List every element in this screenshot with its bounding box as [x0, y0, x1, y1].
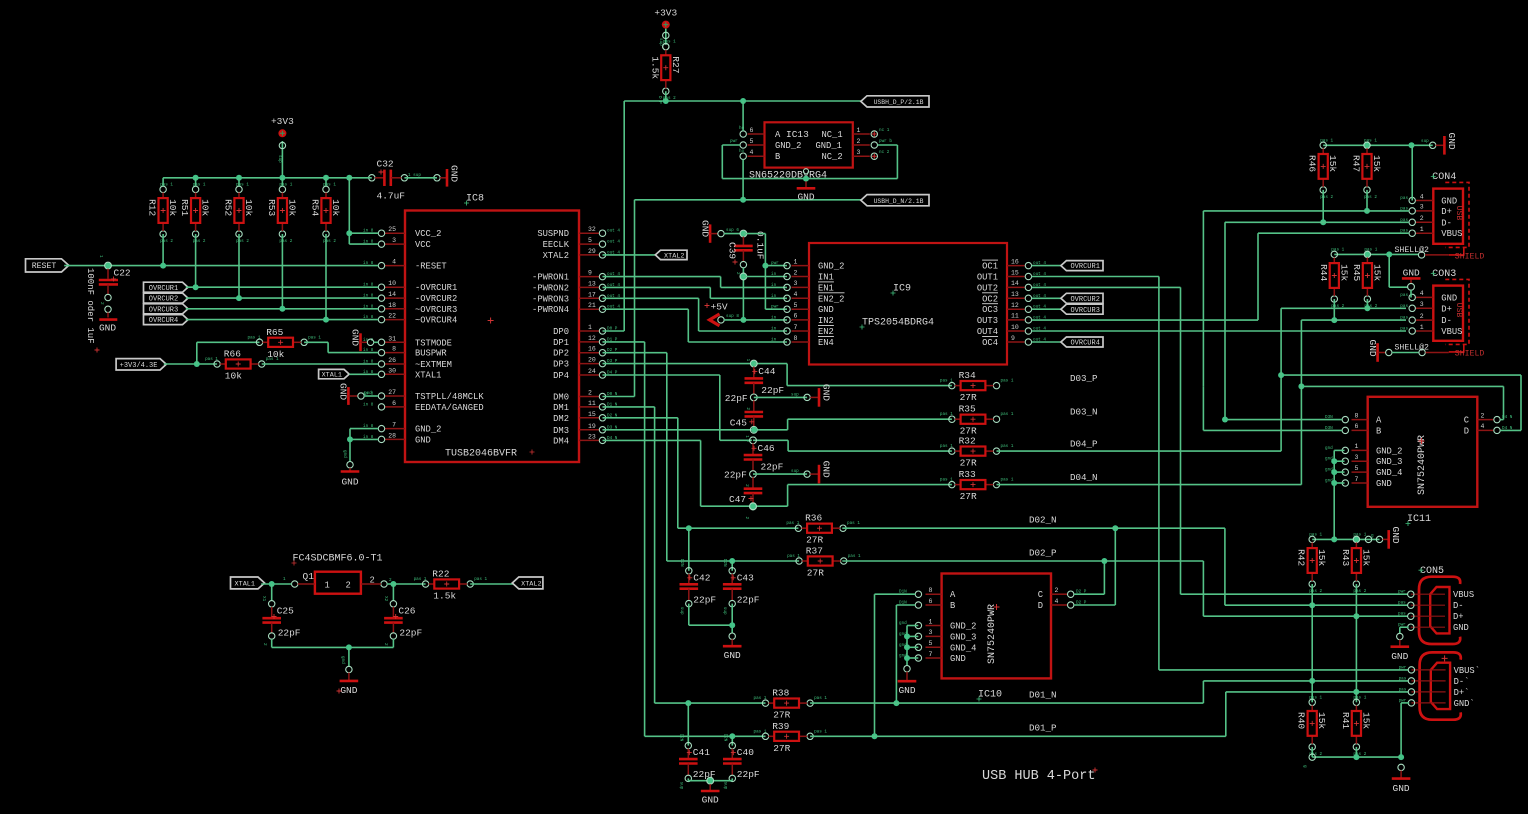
svg-text:8: 8 — [392, 346, 396, 353]
svg-text:pwr: pwr — [1399, 665, 1407, 670]
svg-text:pas 2: pas 2 — [1353, 589, 1366, 594]
svg-text:1: 1 — [745, 359, 750, 362]
wire — [896, 604, 915, 606]
svg-text:GND_2: GND_2 — [818, 262, 844, 272]
wire — [720, 439, 752, 441]
svg-text:R36: R36 — [805, 513, 822, 524]
junction — [663, 98, 669, 104]
resistor R44 — [1318, 247, 1350, 309]
wire — [788, 418, 952, 420]
svg-text:C43: C43 — [737, 572, 754, 583]
svg-text:R51: R51 — [179, 199, 190, 216]
svg-text:D-`: D-` — [1454, 677, 1470, 687]
svg-text:GND_2: GND_2 — [415, 425, 441, 435]
wire — [687, 778, 689, 780]
svg-text:1: 1 — [98, 255, 103, 258]
wire — [1312, 538, 1379, 540]
resistor R47 — [1351, 138, 1383, 200]
wire — [787, 385, 952, 387]
capacitor C26 — [383, 584, 423, 646]
ground — [791, 384, 832, 407]
svg-text:C39: C39 — [727, 242, 738, 259]
resistor R35 — [940, 404, 1014, 437]
svg-text:pas 1: pas 1 — [1320, 138, 1333, 143]
svg-text:pas 2: pas 2 — [323, 239, 336, 244]
junction — [1309, 602, 1315, 608]
svg-text:25: 25 — [388, 226, 396, 233]
svg-text:DM1: DM1 — [553, 403, 569, 413]
svg-text:D P: D P — [657, 96, 662, 104]
ground — [701, 784, 720, 805]
wire — [1334, 449, 1344, 451]
svg-text:14: 14 — [1011, 280, 1019, 287]
svg-text:7: 7 — [929, 651, 933, 658]
svg-text:GND: GND — [415, 435, 431, 445]
resistor R22 — [414, 569, 488, 602]
svg-text:pas 1: pas 1 — [1001, 379, 1014, 384]
capacitor C47 — [724, 470, 762, 520]
wire — [743, 319, 787, 321]
wire — [1300, 320, 1302, 485]
wire — [742, 159, 744, 199]
svg-text:pas 1: pas 1 — [266, 357, 279, 362]
capacitor C43 — [722, 559, 760, 615]
crystal Q1 FC4SDCBMF6.0-T1 — [283, 554, 392, 594]
capacitor C39 — [727, 231, 766, 275]
svg-text:12: 12 — [588, 335, 596, 342]
wire — [1333, 450, 1335, 483]
wire — [271, 584, 273, 601]
wire — [842, 527, 1225, 529]
ground — [1402, 267, 1421, 290]
svg-text:pas 1: pas 1 — [663, 40, 676, 45]
svg-text:USB HUB 4-Port: USB HUB 4-Port — [982, 769, 1095, 784]
svg-text:CON5: CON5 — [1420, 566, 1444, 577]
wire — [1032, 341, 1061, 343]
svg-text:pas 2: pas 2 — [193, 239, 206, 244]
IC U11 SN75240PWR — [1325, 397, 1513, 526]
svg-text:NC_1: NC_1 — [822, 130, 843, 140]
wire — [1074, 593, 1104, 595]
wire — [743, 276, 787, 278]
svg-text:-PWRON3: -PWRON3 — [532, 294, 569, 304]
svg-text:6: 6 — [794, 313, 798, 320]
svg-text:1: 1 — [1355, 443, 1359, 450]
capacitor C45 — [725, 393, 763, 443]
svg-text:OVRCUR1: OVRCUR1 — [149, 285, 178, 293]
svg-text:2: 2 — [1420, 215, 1424, 222]
wire — [1203, 429, 1342, 431]
svg-text:sup: sup — [678, 782, 683, 790]
svg-text:15k: 15k — [1371, 155, 1382, 172]
svg-text:pas 2: pas 2 — [1320, 195, 1333, 200]
svg-text:22pF: 22pF — [761, 462, 784, 473]
wire — [698, 298, 700, 331]
wire — [699, 330, 787, 332]
svg-text:24: 24 — [588, 368, 596, 375]
ground — [1367, 340, 1392, 362]
svg-text:22pF: 22pF — [761, 385, 784, 396]
net label XTAL1 — [319, 369, 350, 379]
svg-text:1: 1 — [1420, 226, 1424, 233]
wire — [896, 145, 898, 179]
svg-text:C42: C42 — [693, 572, 710, 583]
wire — [1355, 747, 1357, 757]
svg-text:D2N: D2N — [722, 559, 727, 567]
capacitor C25 — [261, 584, 301, 646]
wire — [164, 363, 217, 365]
wire — [392, 584, 394, 601]
svg-text:3: 3 — [857, 149, 861, 156]
wire — [1158, 277, 1160, 670]
wire — [1392, 352, 1418, 354]
junction — [686, 525, 692, 531]
svg-text:18: 18 — [388, 302, 396, 309]
wire — [195, 178, 197, 186]
svg-text:OUT2: OUT2 — [977, 283, 998, 293]
junction — [346, 175, 352, 181]
svg-text:6: 6 — [1355, 423, 1359, 430]
wire — [700, 440, 702, 506]
wire — [1032, 286, 1181, 288]
svg-text:IC13: IC13 — [786, 129, 809, 140]
svg-text:SHIELD: SHIELD — [1455, 349, 1485, 358]
svg-text:4: 4 — [750, 149, 754, 156]
wire — [1226, 691, 1409, 693]
wire — [1334, 460, 1344, 462]
svg-text:13: 13 — [588, 280, 596, 287]
wire — [196, 342, 198, 364]
wire — [603, 429, 755, 431]
svg-text:GND: GND — [1393, 783, 1410, 794]
wire — [349, 177, 372, 179]
svg-text:TPS2054BDRG4: TPS2054BDRG4 — [862, 318, 934, 329]
svg-text:C32: C32 — [377, 159, 394, 170]
ground — [95, 320, 118, 353]
wire — [1355, 584, 1357, 702]
capacitor C40 — [722, 734, 760, 790]
wire — [623, 101, 625, 331]
wire — [186, 297, 378, 299]
svg-text:pas 1: pas 1 — [814, 729, 827, 734]
svg-text:OUT4: OUT4 — [977, 327, 998, 337]
svg-text:sup: sup — [791, 469, 799, 474]
wire — [281, 141, 283, 178]
svg-text:3: 3 — [1420, 301, 1424, 308]
svg-text:IC10: IC10 — [978, 690, 1002, 701]
wire — [688, 528, 690, 571]
svg-text:D+`: D+` — [1454, 688, 1470, 698]
junction — [236, 295, 242, 301]
wire — [655, 702, 766, 704]
resistor R54 — [310, 182, 342, 244]
net label OVRCUR4 — [144, 315, 189, 326]
wire — [742, 101, 744, 131]
svg-text:17: 17 — [588, 291, 596, 298]
svg-text:-OVRCUR2: -OVRCUR2 — [415, 294, 457, 304]
svg-text:VCC: VCC — [415, 240, 431, 250]
junction — [1298, 383, 1304, 389]
resistor R52 — [223, 182, 255, 244]
wire — [603, 297, 699, 299]
wire — [667, 560, 799, 562]
wire — [1225, 221, 1409, 223]
capacitor C22 — [85, 255, 131, 344]
svg-text:pwr: pwr — [1398, 590, 1406, 595]
wire — [348, 647, 350, 666]
capacitor C46 — [744, 435, 784, 472]
wire — [997, 450, 1282, 452]
wire — [1225, 604, 1408, 606]
wire — [1032, 276, 1159, 278]
svg-text:GND_2: GND_2 — [775, 141, 801, 151]
svg-text:R37: R37 — [806, 546, 823, 557]
svg-text:+3V3: +3V3 — [654, 7, 677, 18]
svg-text:TSTMODE: TSTMODE — [415, 338, 452, 348]
wire — [764, 234, 766, 310]
svg-text:GND: GND — [99, 323, 116, 334]
wire — [603, 254, 656, 256]
junction — [346, 230, 352, 236]
junction — [323, 317, 329, 323]
svg-text:28: 28 — [388, 432, 396, 439]
wire — [754, 429, 787, 431]
wire — [722, 178, 897, 180]
resistor R46 — [1307, 138, 1339, 200]
svg-text:1.5k: 1.5k — [649, 56, 660, 79]
net label SHELL@2 — [1334, 245, 1449, 258]
resistor R45 — [1351, 247, 1383, 309]
svg-text:SHELL@2: SHELL@2 — [1395, 245, 1429, 255]
svg-text:C40: C40 — [737, 747, 754, 758]
svg-text:0.1uF: 0.1uF — [755, 231, 766, 260]
svg-text:22pF: 22pF — [399, 627, 422, 638]
wire — [304, 341, 328, 343]
svg-text:-PWRON2: -PWRON2 — [532, 283, 569, 293]
svg-text:15k: 15k — [1327, 155, 1338, 172]
svg-text:sup: sup — [277, 155, 282, 163]
resistor R34 — [940, 370, 1014, 403]
svg-text:VBUS`: VBUS` — [1454, 666, 1480, 676]
wire — [1500, 419, 1503, 421]
svg-text:30: 30 — [388, 367, 396, 374]
svg-text:31: 31 — [388, 335, 396, 342]
svg-text:GND: GND — [340, 685, 357, 696]
svg-text:in: in — [771, 327, 777, 332]
ground — [797, 181, 816, 202]
svg-text:10: 10 — [1011, 324, 1019, 331]
svg-text:15k: 15k — [1316, 549, 1327, 566]
junction — [750, 503, 756, 509]
net label OVRCUR1 — [1061, 261, 1103, 272]
wire — [688, 780, 732, 782]
wire — [350, 428, 378, 430]
wire — [195, 234, 197, 287]
resistor R33 — [940, 469, 1014, 502]
net label USBH_D_P/2.1B — [861, 96, 929, 107]
wire — [197, 341, 260, 343]
wire — [186, 308, 378, 310]
svg-text:pas 1: pas 1 — [814, 696, 827, 701]
wire — [1334, 253, 1418, 255]
svg-text:~EXTMEM: ~EXTMEM — [415, 360, 452, 370]
wire — [470, 583, 513, 585]
wire — [731, 561, 733, 571]
svg-text:pas: pas — [1399, 687, 1407, 692]
wire — [349, 232, 378, 234]
svg-text:IC9: IC9 — [893, 284, 911, 295]
wire — [1301, 385, 1503, 387]
junction — [194, 361, 200, 367]
svg-text:DM0: DM0 — [553, 393, 569, 403]
svg-text:15k: 15k — [1338, 264, 1349, 281]
svg-text:9: 9 — [588, 270, 592, 277]
svg-text:4: 4 — [1481, 423, 1485, 430]
svg-text:3: 3 — [1355, 454, 1359, 461]
svg-text:2: 2 — [744, 517, 749, 520]
svg-text:OUT3: OUT3 — [977, 316, 998, 326]
svg-text:3: 3 — [794, 280, 798, 287]
svg-text:GND: GND — [950, 654, 966, 664]
svg-text:g: g — [1302, 765, 1307, 768]
wire — [162, 234, 164, 266]
svg-text:15k: 15k — [1360, 712, 1371, 729]
svg-text:27R: 27R — [960, 491, 977, 502]
power +3V3 — [271, 116, 294, 137]
svg-text:27: 27 — [388, 389, 396, 396]
svg-text:R27: R27 — [670, 56, 681, 73]
svg-text:pas 2: pas 2 — [1309, 589, 1322, 594]
resistor R53 — [266, 182, 298, 244]
wire — [392, 639, 394, 647]
svg-text:pas 1: pas 1 — [160, 182, 173, 187]
wire — [907, 646, 918, 648]
svg-text:3: 3 — [392, 237, 396, 244]
wire — [787, 440, 789, 451]
svg-text:GND_4: GND_4 — [950, 643, 976, 653]
svg-text:10: 10 — [388, 280, 396, 287]
svg-text:gnd: gnd — [899, 621, 907, 626]
junction — [803, 176, 809, 182]
svg-text:in 8: in 8 — [363, 402, 374, 407]
svg-text:pas: pas — [1400, 293, 1408, 298]
svg-text:ho: ho — [739, 149, 745, 154]
svg-text:GND: GND — [1390, 527, 1401, 544]
junction — [707, 778, 713, 784]
wire — [765, 265, 787, 267]
svg-text:C: C — [1038, 590, 1043, 600]
svg-text:pwr: pwr — [730, 139, 738, 144]
svg-text:10k: 10k — [330, 199, 341, 216]
svg-text:C22: C22 — [114, 268, 131, 279]
junction — [1364, 142, 1370, 148]
junction — [1320, 219, 1326, 225]
svg-text:C45: C45 — [730, 417, 747, 428]
svg-text:GND: GND — [1376, 479, 1392, 489]
junction — [1353, 536, 1359, 542]
svg-text:16: 16 — [1011, 258, 1019, 265]
svg-text:pas 1: pas 1 — [1364, 247, 1377, 252]
resistor R27 — [649, 40, 681, 102]
svg-text:pas 1: pas 1 — [1001, 478, 1014, 483]
wire — [654, 407, 656, 703]
svg-text:D-: D- — [1441, 316, 1452, 326]
junction — [1353, 754, 1359, 760]
svg-text:D01_P: D01_P — [1029, 723, 1057, 734]
wire — [349, 429, 351, 462]
net label OVRCUR4 — [1061, 337, 1103, 348]
svg-text:CON3: CON3 — [1432, 269, 1456, 280]
svg-text:in: in — [771, 294, 777, 299]
connector CON4 — [231, 145, 1485, 696]
svg-text:out 4: out 4 — [607, 240, 620, 245]
svg-text:pas 1: pas 1 — [754, 729, 767, 734]
svg-text:-RESET: -RESET — [415, 262, 447, 272]
svg-text:27R: 27R — [773, 710, 790, 721]
svg-text:out 4: out 4 — [607, 229, 620, 234]
svg-text:g: g — [1371, 534, 1374, 539]
svg-text:R35: R35 — [959, 404, 976, 415]
wire — [1032, 265, 1061, 267]
svg-text:1: 1 — [325, 581, 330, 591]
capacitor C41 — [678, 734, 716, 790]
junction — [1331, 469, 1337, 475]
svg-text:RESET: RESET — [32, 262, 57, 271]
junction — [740, 231, 746, 237]
wire — [1400, 703, 1402, 757]
wire — [688, 604, 690, 626]
net label USBH_D_N/2.1B — [861, 195, 929, 206]
svg-text:pas: pas — [1399, 676, 1407, 681]
wire — [1257, 233, 1259, 320]
junction — [1353, 689, 1359, 695]
svg-text:8: 8 — [1355, 412, 1359, 419]
svg-text:6: 6 — [392, 400, 396, 407]
svg-text:R39: R39 — [772, 721, 789, 732]
svg-text:XTAL2: XTAL2 — [521, 581, 541, 589]
resistor R51 — [179, 182, 211, 244]
wire — [603, 341, 645, 343]
wire — [907, 625, 918, 627]
svg-text:pas 1: pas 1 — [1001, 444, 1014, 449]
svg-text:pas 1: pas 1 — [787, 554, 800, 559]
svg-text:4: 4 — [392, 259, 396, 266]
wire — [186, 319, 378, 321]
svg-text:9: 9 — [1011, 335, 1015, 342]
svg-text:GND: GND — [699, 220, 710, 237]
junction — [279, 306, 285, 312]
svg-text:7: 7 — [794, 324, 798, 331]
svg-text:OC1: OC1 — [982, 262, 998, 272]
ground — [440, 165, 460, 187]
svg-text:7: 7 — [1355, 476, 1359, 483]
wire — [272, 646, 394, 648]
wire — [349, 373, 378, 375]
wire — [603, 396, 635, 398]
ground — [341, 468, 360, 488]
net label RESET — [26, 259, 69, 272]
svg-text:22pF: 22pF — [737, 769, 760, 780]
svg-text:GND_2: GND_2 — [1376, 446, 1402, 456]
wire — [1333, 299, 1335, 320]
svg-text:sup: sup — [791, 392, 799, 397]
junction — [269, 581, 275, 587]
svg-text:GND_2: GND_2 — [950, 622, 976, 632]
net label XTAL1 — [231, 577, 265, 589]
svg-text:32: 32 — [588, 226, 596, 233]
wire — [997, 484, 1302, 486]
svg-text:R66: R66 — [224, 349, 241, 360]
